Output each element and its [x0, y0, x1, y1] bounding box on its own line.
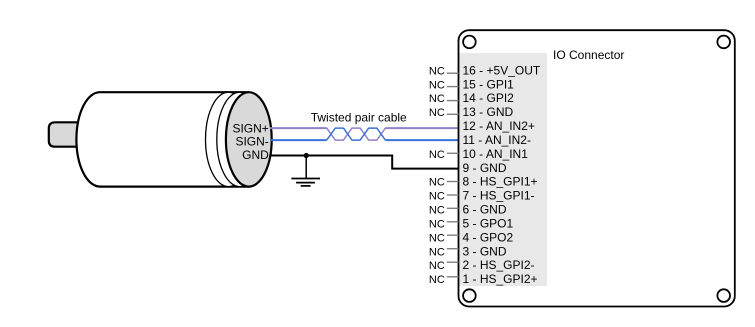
pin 9: GND — [463, 161, 507, 175]
screw hole top-left — [463, 36, 476, 49]
IO connector J1 body — [459, 30, 735, 306]
svg-text:NC: NC — [429, 65, 445, 77]
screw hole bottom-right — [717, 289, 730, 302]
svg-text:11 - AN_IN2-: 11 - AN_IN2- — [463, 133, 531, 147]
svg-text:13 - GND: 13 - GND — [463, 105, 514, 119]
svg-text:6 - GND: 6 - GND — [463, 203, 507, 217]
pin 13: GND (NC) — [429, 105, 514, 119]
pin label strip — [460, 53, 548, 286]
pin 7: HS_GPI1- (NC) — [429, 189, 535, 203]
motor end cap — [226, 92, 272, 186]
pin 6: GND (NC) — [429, 203, 507, 217]
svg-text:14 - GPI2: 14 - GPI2 — [463, 91, 515, 105]
pin 10: AN_IN1 (NC) — [429, 147, 528, 161]
motor ring arc 2 — [217, 92, 263, 186]
pin 1: HS_GPI2+ (NC) — [429, 272, 538, 286]
screw hole top-right — [717, 36, 730, 49]
svg-text:NC: NC — [429, 177, 445, 189]
svg-text:15 - GPI1: 15 - GPI1 — [463, 77, 515, 91]
pin 12: AN_IN2+ — [463, 119, 535, 133]
svg-text:2 - HS_GPI2-: 2 - HS_GPI2- — [463, 258, 535, 272]
svg-text:NC: NC — [429, 205, 445, 217]
pin 14: GPI2 (NC) — [429, 91, 514, 105]
svg-text:4 - GPO2: 4 - GPO2 — [463, 230, 514, 244]
svg-text:SIGN+: SIGN+ — [232, 121, 268, 135]
svg-text:NC: NC — [429, 107, 445, 119]
pin 8: HS_GPI1+ (NC) — [429, 175, 538, 189]
svg-text:3 - GND: 3 - GND — [463, 244, 507, 258]
svg-text:NC: NC — [429, 218, 445, 230]
screw hole bottom-left — [463, 289, 476, 302]
svg-text:IO Connector: IO Connector — [553, 48, 624, 62]
pin 4: GPO2 (NC) — [429, 230, 514, 244]
svg-text:5 - GPO1: 5 - GPO1 — [463, 216, 514, 230]
pin 11: AN_IN2- — [463, 133, 531, 147]
svg-text:Twisted pair cable: Twisted pair cable — [311, 111, 407, 125]
svg-text:12 - AN_IN2+: 12 - AN_IN2+ — [463, 119, 535, 133]
svg-text:7 - HS_GPI1-: 7 - HS_GPI1- — [463, 189, 535, 203]
svg-text:NC: NC — [429, 246, 445, 258]
pin 15: GPI1 (NC) — [429, 77, 514, 91]
motor M1 — [49, 92, 272, 186]
svg-text:SIGN-: SIGN- — [235, 135, 268, 149]
svg-text:10 - AN_IN1: 10 - AN_IN1 — [463, 147, 529, 161]
svg-text:16 - +5V_OUT: 16 - +5V_OUT — [463, 63, 541, 77]
wire GND to pin 9 — [270, 156, 459, 169]
motor body — [76, 92, 249, 186]
svg-text:GND: GND — [242, 148, 269, 162]
svg-text:NC: NC — [429, 93, 445, 105]
svg-text:NC: NC — [429, 79, 445, 91]
junction dot — [304, 153, 309, 158]
svg-text:8 - HS_GPI1+: 8 - HS_GPI1+ — [463, 175, 538, 189]
svg-text:NC: NC — [429, 260, 445, 272]
svg-text:9 - GND: 9 - GND — [463, 161, 507, 175]
svg-text:NC: NC — [429, 232, 445, 244]
ground — [291, 156, 320, 186]
wire SIGN+ to pin 12 (purple, twisted pair) — [270, 128, 459, 140]
wire SIGN- to pin 11 (blue, twisted pair) — [270, 128, 459, 140]
svg-text:NC: NC — [429, 149, 445, 161]
svg-text:NC: NC — [429, 274, 445, 286]
pin 5: GPO1 (NC) — [429, 216, 514, 230]
svg-text:NC: NC — [429, 191, 445, 203]
pin 2: HS_GPI2- (NC) — [429, 258, 535, 272]
motor shaft — [49, 122, 78, 146]
pin 16: +5V_OUT (NC) — [429, 63, 541, 77]
motor ring arc 1 — [206, 92, 252, 186]
pin 3: GND (NC) — [429, 244, 507, 258]
svg-text:1 - HS_GPI2+: 1 - HS_GPI2+ — [463, 272, 538, 286]
